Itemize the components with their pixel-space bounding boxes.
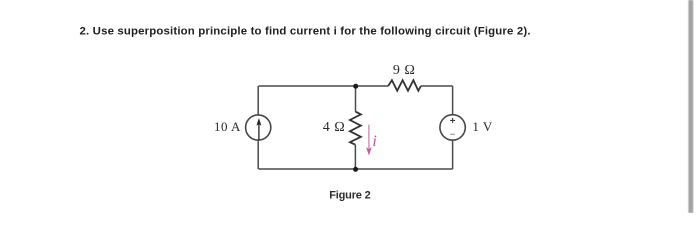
svg-text:2. Use superposition principle: 2. Use superposition principle to find c… bbox=[80, 25, 531, 37]
current source I1 (10 A) bbox=[246, 115, 271, 140]
wire: top side (right segment) bbox=[421, 85, 453, 87]
wire: right side lower bbox=[452, 140, 454, 169]
wire: middle branch lower bbox=[354, 145, 356, 169]
svg-text:4 Ω: 4 Ω bbox=[323, 120, 345, 135]
junction node (top) bbox=[353, 84, 358, 89]
wire: left side upper bbox=[257, 86, 259, 115]
wire: top side (left segment, to 9-ohm resistor) bbox=[259, 85, 389, 87]
resistor R2 (9 ohm) zigzag bbox=[388, 80, 421, 91]
voltage source V1 (1 V) bbox=[440, 115, 465, 140]
svg-text:9 Ω: 9 Ω bbox=[393, 63, 415, 78]
current arrow i (pink) bbox=[367, 125, 372, 155]
junction node (bottom) bbox=[353, 167, 358, 172]
svg-text:1 V: 1 V bbox=[472, 119, 493, 134]
wire: right side upper bbox=[452, 86, 454, 115]
resistor R1 (4 ohm) zigzag bbox=[350, 112, 361, 145]
page edge scan line (right) bbox=[688, 0, 693, 213]
svg-text:Figure 2: Figure 2 bbox=[329, 189, 371, 201]
svg-text:i: i bbox=[372, 133, 376, 150]
wire: left side lower bbox=[257, 140, 259, 169]
wire: bottom side bbox=[259, 168, 453, 170]
wire: middle branch upper bbox=[355, 86, 357, 112]
svg-text:10 A: 10 A bbox=[214, 119, 241, 134]
